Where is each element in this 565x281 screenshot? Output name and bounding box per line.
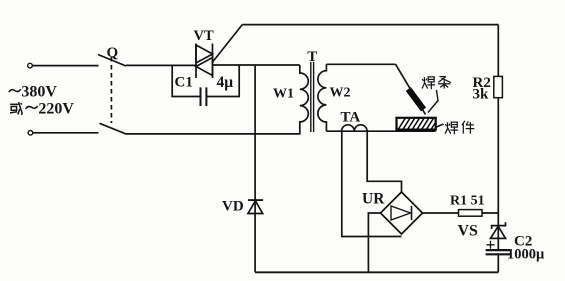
triac VT right bar <box>212 44 214 79</box>
svg-text:4μ: 4μ <box>217 74 234 91</box>
wire W2 top lead <box>326 63 395 65</box>
triac VT lower triangle <box>196 58 213 76</box>
switch Q link (dashed) <box>110 57 112 123</box>
resistor R2 body <box>494 76 503 97</box>
workpiece 焊件 hatched block <box>397 118 436 130</box>
wire VT gate diagonal <box>213 25 242 62</box>
capacitor C1 branch left <box>172 65 200 97</box>
svg-text:W1: W1 <box>273 87 294 102</box>
current transformer TA humps <box>342 125 368 131</box>
diode VD bar <box>248 199 263 201</box>
wire upper to VT <box>126 64 196 66</box>
wire UR right vertex to R1 <box>423 212 459 214</box>
svg-text:VS: VS <box>458 223 479 240</box>
svg-text:UR: UR <box>362 191 385 208</box>
wire right bus upper <box>497 25 499 77</box>
svg-text:380V: 380V <box>21 84 57 101</box>
label 焊件 <box>445 122 458 134</box>
diode VD triangle <box>248 201 263 214</box>
wire TA right lead to bridge top <box>367 131 401 192</box>
wire VS to C2 <box>497 226 499 250</box>
wire right bus middle <box>497 98 499 226</box>
rectifier UR diamond <box>381 192 423 234</box>
zener VS triangle <box>491 226 506 238</box>
terminal upper input <box>28 63 33 68</box>
workpiece leader dash <box>436 124 443 127</box>
wire TA left lead to bridge bottom <box>342 131 402 236</box>
svg-text:C1: C1 <box>175 75 193 91</box>
wire R1 to right bus <box>482 212 498 214</box>
svg-text:W2: W2 <box>330 86 351 101</box>
triac VT upper triangle <box>196 45 213 63</box>
resistor R1 body <box>459 210 483 217</box>
switch Q lower blade <box>100 123 127 134</box>
svg-text:TA: TA <box>341 110 361 126</box>
wire UR left vertex to ground bus <box>368 213 380 272</box>
winding W2 <box>318 64 327 131</box>
wire VD vertical <box>254 65 256 272</box>
zener VS bar <box>492 222 506 229</box>
plus mark of C2 <box>487 241 495 249</box>
svg-text:220V: 220V <box>38 101 74 118</box>
diode inside UR bar <box>411 206 413 220</box>
svg-text:3k: 3k <box>473 87 490 103</box>
svg-text:1000μ: 1000μ <box>507 247 545 263</box>
switch Q upper blade <box>98 55 126 67</box>
label 或~220V <box>10 102 22 115</box>
label 焊条 <box>422 77 435 89</box>
wire electrode diagonal <box>396 64 426 114</box>
wire ground bus bottom <box>255 271 498 273</box>
welding electrode 焊条 black rod <box>408 89 423 110</box>
capacitor C2 plates <box>486 249 511 251</box>
terminal lower input <box>28 131 33 136</box>
wire VT to W1 top <box>213 64 300 66</box>
svg-text:Q: Q <box>107 45 119 61</box>
transformer T core <box>310 62 312 132</box>
wire top bus <box>242 24 498 26</box>
wire lower to W1 bottom <box>127 122 300 134</box>
wire W2 bottom / secondary bus <box>326 130 435 132</box>
svg-text:VT: VT <box>194 28 214 44</box>
svg-text:VD: VD <box>222 199 244 215</box>
label ~380V <box>9 89 21 92</box>
capacitor C1 plates <box>200 87 202 106</box>
wire lower input <box>33 132 99 134</box>
triac VT left bar <box>195 44 197 79</box>
capacitor C1 branch right <box>206 65 239 97</box>
diode inside UR triangle <box>391 206 411 220</box>
svg-text:R1 51: R1 51 <box>450 194 485 209</box>
svg-text:T: T <box>307 49 317 65</box>
winding W1 <box>300 65 309 122</box>
welding electrode leader line <box>428 90 438 113</box>
wire C2 to ground bus <box>497 254 499 272</box>
wire upper input <box>32 65 98 67</box>
